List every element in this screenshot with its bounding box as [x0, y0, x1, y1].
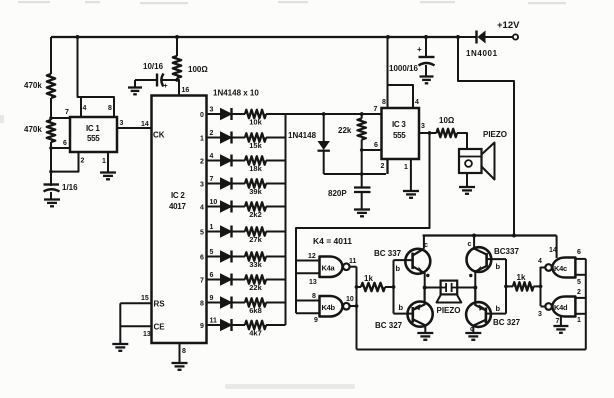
svg-text:10: 10	[346, 296, 354, 303]
svg-text:CK: CK	[153, 131, 165, 140]
svg-text:c: c	[424, 242, 428, 249]
svg-text:11: 11	[210, 318, 218, 325]
svg-text:3: 3	[421, 123, 425, 130]
svg-text:CE: CE	[154, 323, 166, 332]
svg-text:5: 5	[577, 279, 581, 286]
svg-text:13: 13	[143, 331, 151, 338]
svg-text:K4 = 4011: K4 = 4011	[313, 236, 352, 246]
svg-text:1: 1	[102, 158, 106, 165]
svg-text:1: 1	[210, 224, 214, 231]
svg-text:1k: 1k	[517, 273, 526, 282]
svg-text:b: b	[399, 303, 404, 312]
svg-text:6: 6	[374, 142, 378, 149]
svg-text:10/16: 10/16	[143, 62, 164, 71]
svg-text:10: 10	[210, 199, 218, 206]
svg-text:c: c	[470, 326, 474, 333]
svg-text:RS: RS	[154, 300, 166, 309]
svg-text:b: b	[496, 304, 501, 313]
svg-text:b: b	[496, 262, 501, 271]
svg-text:1: 1	[200, 136, 204, 143]
svg-text:27k: 27k	[249, 235, 262, 244]
svg-text:K4a: K4a	[322, 264, 336, 273]
svg-text:4: 4	[210, 153, 214, 160]
svg-text:15k: 15k	[249, 141, 262, 150]
svg-text:1N4148: 1N4148	[288, 131, 317, 140]
svg-text:2: 2	[381, 163, 385, 170]
svg-text:+: +	[164, 83, 168, 90]
svg-text:K4c: K4c	[554, 264, 567, 273]
svg-text:1N4001: 1N4001	[466, 49, 498, 58]
svg-text:8: 8	[200, 301, 204, 308]
svg-text:555: 555	[87, 134, 100, 143]
svg-text:10k: 10k	[249, 118, 262, 127]
svg-text:4: 4	[200, 205, 204, 212]
svg-text:2k2: 2k2	[249, 210, 262, 219]
svg-text:3: 3	[538, 311, 542, 318]
svg-text:39k: 39k	[249, 187, 262, 196]
svg-text:22k: 22k	[249, 283, 262, 292]
svg-text:14: 14	[549, 247, 557, 254]
svg-text:820P: 820P	[328, 189, 347, 198]
svg-text:K4b: K4b	[322, 303, 336, 312]
svg-text:6: 6	[63, 140, 67, 147]
svg-text:15: 15	[141, 295, 149, 302]
svg-text:1000/16: 1000/16	[389, 64, 418, 73]
svg-text:2: 2	[210, 130, 214, 137]
svg-text:12: 12	[308, 253, 316, 260]
svg-text:7: 7	[374, 106, 378, 113]
svg-text:8: 8	[108, 105, 112, 112]
svg-text:6k8: 6k8	[249, 306, 262, 315]
svg-text:9: 9	[314, 317, 318, 324]
svg-text:14: 14	[141, 121, 149, 128]
svg-text:3: 3	[200, 182, 204, 189]
svg-text:100Ω: 100Ω	[188, 65, 208, 74]
svg-text:+: +	[417, 45, 422, 54]
svg-text:2: 2	[81, 158, 85, 165]
svg-text:6: 6	[577, 249, 581, 256]
svg-text:11: 11	[349, 258, 357, 265]
svg-text:4: 4	[538, 258, 542, 265]
svg-text:2: 2	[577, 289, 581, 296]
svg-text:7: 7	[210, 176, 214, 183]
svg-text:4: 4	[415, 99, 419, 106]
svg-text:0: 0	[200, 112, 204, 119]
svg-text:10Ω: 10Ω	[439, 116, 455, 125]
svg-text:33k: 33k	[249, 260, 262, 269]
svg-text:2: 2	[200, 159, 204, 166]
svg-text:7: 7	[200, 278, 204, 285]
svg-text:IC 3: IC 3	[392, 120, 406, 129]
svg-text:9: 9	[200, 323, 204, 330]
svg-text:6: 6	[210, 272, 214, 279]
svg-text:+12V: +12V	[497, 20, 520, 31]
svg-text:470k: 470k	[24, 81, 42, 90]
svg-text:8: 8	[382, 99, 386, 106]
svg-text:13: 13	[309, 279, 317, 286]
svg-text:18k: 18k	[249, 164, 262, 173]
svg-text:8: 8	[182, 348, 186, 355]
svg-text:PIEZO: PIEZO	[437, 306, 461, 315]
svg-text:7: 7	[65, 109, 69, 116]
svg-text:8: 8	[312, 293, 316, 300]
svg-text:b: b	[396, 264, 401, 273]
svg-text:IC 1: IC 1	[86, 124, 100, 133]
svg-text:1k: 1k	[364, 274, 373, 283]
svg-text:K4d: K4d	[554, 303, 568, 312]
svg-text:BC 327: BC 327	[375, 321, 403, 330]
svg-text:1: 1	[404, 164, 408, 171]
svg-text:9: 9	[210, 295, 214, 302]
svg-text:BC 337: BC 337	[374, 249, 402, 258]
svg-text:555: 555	[393, 131, 406, 140]
svg-text:5: 5	[200, 230, 204, 237]
svg-text:470k: 470k	[24, 125, 42, 134]
svg-text:5: 5	[210, 249, 214, 256]
svg-text:16: 16	[182, 87, 190, 94]
svg-text:BC337: BC337	[494, 247, 519, 256]
svg-text:3: 3	[120, 120, 124, 127]
svg-text:4017: 4017	[169, 202, 186, 211]
svg-text:BC 327: BC 327	[493, 318, 521, 327]
svg-text:4: 4	[83, 105, 87, 112]
svg-text:c: c	[468, 241, 472, 248]
svg-text:3: 3	[210, 107, 214, 114]
svg-text:IC 2: IC 2	[171, 191, 185, 200]
svg-text:4k7: 4k7	[249, 329, 262, 338]
svg-text:22k: 22k	[338, 126, 352, 135]
svg-text:PIEZO: PIEZO	[483, 130, 507, 139]
svg-text:1: 1	[577, 317, 581, 324]
svg-text:6: 6	[200, 255, 204, 262]
svg-text:1N4148 x 10: 1N4148 x 10	[213, 89, 259, 98]
svg-text:7: 7	[556, 318, 560, 325]
svg-text:1/16: 1/16	[62, 183, 78, 192]
